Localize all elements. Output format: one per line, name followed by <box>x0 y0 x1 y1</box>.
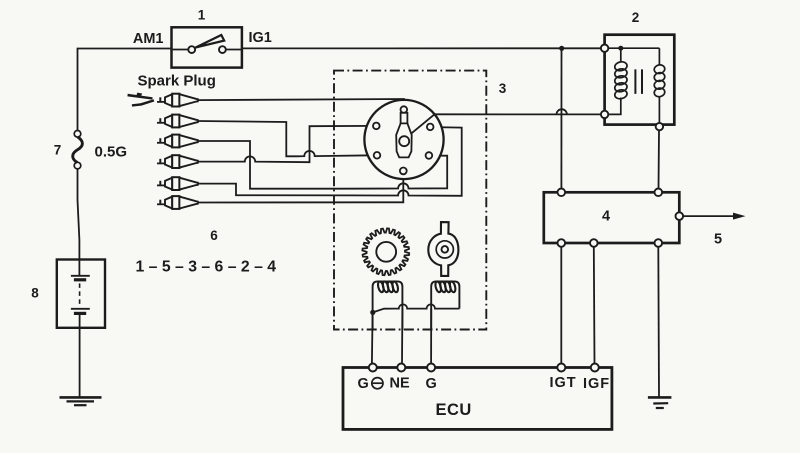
battery 8 <box>57 260 105 328</box>
centre spark plug drawing inside cap <box>396 106 412 157</box>
wire plug4 to upper-left cap terminal <box>198 126 373 162</box>
output arrow 5 <box>683 215 734 217</box>
svg-text:3: 3 <box>499 81 507 96</box>
rotor contact line <box>407 114 435 137</box>
spark plug 1 <box>157 94 198 107</box>
spark plug 3 <box>157 135 198 148</box>
spark plug 5 <box>157 177 198 190</box>
junction dot <box>559 46 564 51</box>
wire plug5 to upper-right cap terminal <box>198 127 462 196</box>
svg-text:0.5G: 0.5G <box>95 144 128 161</box>
ECU box <box>343 364 612 430</box>
spark symbol (lightning) <box>127 93 154 107</box>
svg-text:1 – 5 – 3 – 6 – 2 – 4: 1 – 5 – 3 – 6 – 2 – 4 <box>136 259 277 276</box>
wire plug3 to lower-right cap terminal <box>198 141 448 189</box>
wire battery to switch (AM1 feed) <box>78 49 172 131</box>
cap terminal bottom <box>400 168 407 175</box>
wire NE to ECU <box>401 309 403 364</box>
svg-text:2: 2 <box>632 10 640 25</box>
svg-text:IGT: IGT <box>550 375 577 391</box>
wire G to ECU <box>430 309 432 364</box>
wire switch IG1 to coil, junction to igniter <box>242 47 601 49</box>
spark plug 6 <box>157 196 198 209</box>
wire coil secondary to igniter 4 <box>658 130 661 188</box>
wire G- to ECU <box>371 312 374 363</box>
cap terminal upper-left <box>373 123 380 130</box>
ignition switch 1 <box>172 27 242 67</box>
wire junction down to igniter 4 <box>560 48 562 188</box>
wire plug1 to coil tower (distributor centre) <box>198 99 404 106</box>
svg-text:6: 6 <box>210 228 218 243</box>
cap terminal upper-right <box>427 124 434 131</box>
svg-text:7: 7 <box>54 143 62 158</box>
svg-text:8: 8 <box>31 286 39 301</box>
ground (igniter) <box>648 397 672 408</box>
spark plug 2 <box>157 115 198 128</box>
distributor assembly boundary 3 (dash-dot) <box>334 71 486 330</box>
wire plug6 to bottom cap terminal <box>198 174 404 202</box>
wire coil primary-low terminal to distributor rotor (hop over vertical) <box>435 109 602 114</box>
igniter 4 <box>544 189 683 247</box>
svg-text:G: G <box>426 376 437 392</box>
pickup coil G <box>431 281 459 330</box>
wire plug2 to lower-left cap terminal <box>198 121 374 156</box>
wire battery to ground <box>79 315 81 397</box>
pickup coil NE <box>373 281 403 330</box>
svg-text:ECU: ECU <box>436 401 472 419</box>
cap terminal lower-left <box>374 152 381 159</box>
svg-text:IGF: IGF <box>583 376 610 392</box>
wire fuse to battery <box>78 169 80 276</box>
svg-text:G: G <box>358 376 369 392</box>
wire igniter IGT to ECU <box>560 247 562 364</box>
cap terminal lower-right <box>426 152 433 159</box>
spark plug 4 <box>157 155 198 168</box>
wire igniter IGF to ECU <box>593 247 596 364</box>
distributor cap (circle) <box>364 100 443 179</box>
ground (battery) <box>60 397 102 405</box>
signal rotor (G) <box>428 222 458 276</box>
wire igniter to ground <box>657 247 660 397</box>
junction dot (pickup common) <box>370 310 375 315</box>
fuse 7 (0.5G) <box>73 131 83 169</box>
ignition coil 2 <box>601 35 674 131</box>
svg-text:AM1: AM1 <box>133 31 164 47</box>
svg-text:4: 4 <box>602 209 610 225</box>
pickup gear (NE timing rotor) <box>362 228 409 275</box>
common pickup return wire (hops over NE and G leads) <box>373 304 460 312</box>
svg-text:NE: NE <box>390 376 410 392</box>
svg-text:Spark Plug: Spark Plug <box>138 73 216 90</box>
svg-text:1: 1 <box>198 8 206 23</box>
svg-text:5: 5 <box>714 232 722 248</box>
svg-text:IG1: IG1 <box>249 30 272 46</box>
